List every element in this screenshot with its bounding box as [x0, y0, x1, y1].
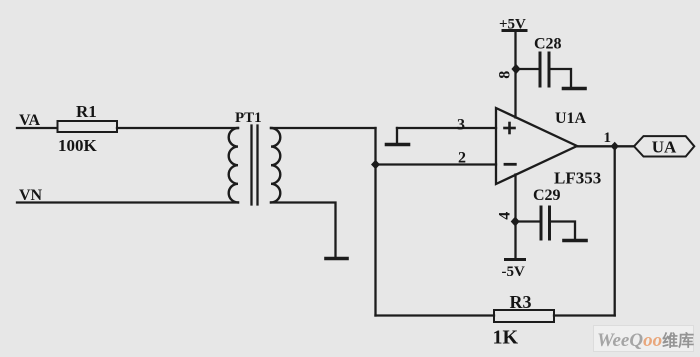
svg-text:2: 2	[458, 150, 466, 167]
wire pin 2 of U1A	[376, 163, 497, 165]
transformer PT1 primary winding	[229, 128, 238, 202]
wire +5V to op-amp pin 8	[514, 31, 516, 118]
wire secondary top to node A	[271, 127, 376, 129]
wire output node down to R3	[614, 146, 616, 315]
watermark WeeQoo weiku	[594, 326, 695, 352]
-5V power bar	[506, 258, 525, 261]
wire VA to R1	[17, 127, 57, 129]
ground at C29	[564, 239, 586, 243]
svg-text:UA: UA	[652, 137, 677, 156]
ground at pin 3	[387, 143, 409, 147]
wire R3 to output node	[554, 314, 615, 316]
resistor R3	[494, 310, 554, 322]
wire stub to ground at pin 3	[396, 128, 398, 143]
ground at C28	[564, 87, 586, 91]
svg-text:8: 8	[497, 71, 514, 79]
wire C28 right plate to ground	[551, 69, 572, 87]
wire op-amp pin 4 to -5V	[514, 175, 516, 259]
svg-text:R1: R1	[76, 102, 97, 121]
wire node to C29 left plate	[516, 220, 540, 222]
junction dot at output node	[611, 142, 619, 151]
svg-text:C28: C28	[534, 36, 562, 53]
resistor R1	[58, 121, 118, 132]
wire VN to PT1 primary bottom	[17, 201, 238, 203]
op-amp U1A	[496, 108, 577, 184]
transformer PT1 secondary winding	[271, 128, 280, 202]
svg-text:VA: VA	[19, 112, 40, 129]
wire R1 to PT1 primary top	[117, 127, 238, 129]
svg-text:C29: C29	[533, 187, 561, 204]
svg-text:U1A: U1A	[555, 110, 587, 127]
svg-text:100K: 100K	[58, 136, 98, 155]
capacitor C29	[541, 207, 550, 239]
svg-text:3: 3	[457, 117, 465, 134]
svg-text:LF353: LF353	[554, 169, 601, 188]
net tag UA hexagon	[634, 136, 694, 156]
wire pin 3 of U1A	[397, 127, 496, 129]
svg-text:R3: R3	[510, 292, 532, 312]
svg-text:WeeQoo维库: WeeQoo维库	[597, 330, 694, 351]
svg-text:1: 1	[604, 130, 612, 146]
svg-text:1K: 1K	[493, 327, 519, 349]
wire feedback bottom left	[376, 314, 495, 316]
transformer PT1 core	[250, 126, 252, 205]
wire secondary bottom	[271, 203, 336, 259]
wire C29 right plate to ground	[551, 222, 575, 239]
svg-text:PT1: PT1	[235, 110, 262, 126]
junction dot at pin 4	[511, 217, 520, 227]
svg-text:+5V: +5V	[499, 17, 526, 33]
svg-text:VN: VN	[19, 187, 43, 204]
wire node to C28 left plate	[516, 68, 539, 70]
wire output pin 1	[577, 145, 634, 147]
op-amp plus symbol	[505, 123, 515, 133]
ground under transformer secondary	[326, 257, 347, 261]
junction dot at pin 8	[511, 64, 520, 74]
+5V power bar	[503, 29, 526, 32]
wire node A vertical down to feedback	[374, 128, 376, 316]
capacitor C28	[540, 53, 549, 86]
node A junction dot	[371, 160, 380, 170]
op-amp minus symbol	[505, 163, 515, 166]
svg-text:4: 4	[497, 212, 514, 220]
svg-text:-5V: -5V	[502, 264, 525, 280]
